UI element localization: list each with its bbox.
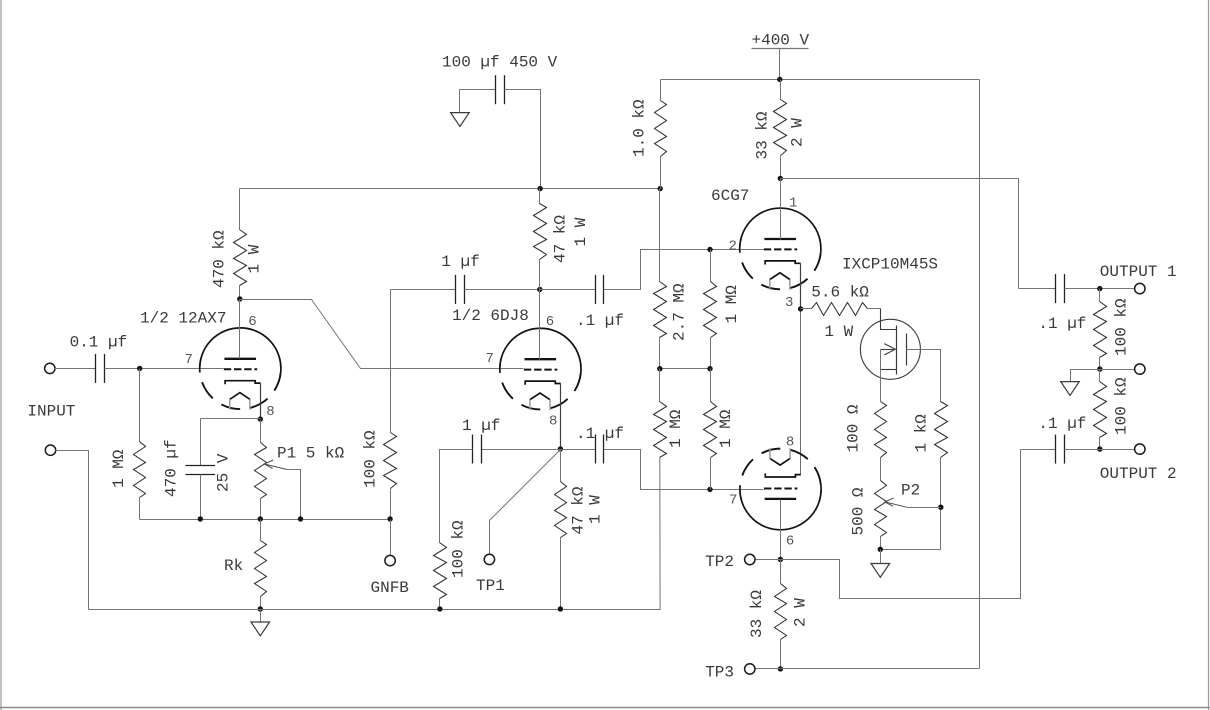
svg-text:6: 6 [248,314,256,330]
wire out2 cap to jack [1065,449,1135,451]
svg-text:OUTPUT 2: OUTPUT 2 [1100,465,1177,483]
wire 6DJ8 plate lead [539,290,541,360]
node 33k/plate junction [778,176,783,181]
wire pin8 node to 470uF [201,418,261,420]
resistor 47 kΩ 1 W (upper) [539,189,541,204]
wire TP1 diagonal [490,450,561,555]
resistor 47 kΩ 1 W (lower) [560,450,562,482]
capacitor 100 µf 450 V [495,75,497,104]
resistor 100 kΩ (GNFB) [390,290,392,433]
wire mid to jack [1100,369,1136,371]
svg-text:2 W: 2 W [788,118,806,147]
node TP2 junction [778,557,783,562]
transistor Q1 IXCP10M45S [860,319,920,379]
capacitor 1 µf (lower) [472,435,474,464]
wire 12AX7 cathode lead [260,384,262,420]
svg-text:7: 7 [185,352,193,368]
resistor 5.6 kΩ 1 W [801,308,812,310]
potentiometer P2 500 Ω [875,481,887,537]
wire cap to grid [105,368,224,370]
svg-text:470 µf: 470 µf [163,439,181,497]
node divider right [707,366,712,371]
svg-text:100 kΩ: 100 kΩ [1113,377,1131,435]
resistor 1 MΩ (lower left) [659,369,661,402]
ground (output divider) [1061,382,1080,396]
TP1 terminal [484,554,494,564]
potentiometer P1 5 kΩ [260,420,262,443]
GNFB terminal [390,520,392,557]
ground (Rk) [260,610,262,623]
wire mid to ground stub [1071,370,1100,382]
wire jack2 to bottom rail [56,451,89,610]
wire TP3 to right rail [781,668,980,670]
svg-text:.1 µf: .1 µf [576,312,624,330]
node out1 junction [1097,286,1102,291]
capacitor 1 µf (coupling) [455,275,457,304]
wire node to .1uF [540,289,596,291]
svg-text:25 V: 25 V [215,453,233,492]
wire input to cap [55,368,96,370]
node pin8/cathode junction [258,416,263,421]
OUTPUT 1 terminal [1135,283,1145,293]
wire mosfet right lead [907,350,941,402]
svg-text:1 MΩ: 1 MΩ [667,409,685,448]
node 100k/ground-rail [437,606,442,611]
tube U3b 6CG7 (lower) [740,485,821,530]
svg-text:6CG7: 6CG7 [711,187,749,205]
wire bottom ground rail [89,609,661,611]
svg-text:1/2 6DJ8: 1/2 6DJ8 [452,307,529,325]
resistor 470 kΩ 1 W [239,189,241,230]
capacitor 0.1 µf [95,354,97,383]
svg-text:2 W: 2 W [792,598,810,627]
wire .1uF to 6CG7 grid 7 [604,450,764,490]
svg-text:1.0 kΩ: 1.0 kΩ [631,99,649,157]
capacitor .1 µf (to 6CG7 grid 7) [595,435,597,464]
wire divider tie [660,368,711,370]
svg-text:.1 µf: .1 µf [1038,415,1086,433]
svg-text:6: 6 [786,534,794,550]
node 470uF bottom [198,516,203,521]
wire 1uF to 47k node [465,289,540,291]
svg-text:1 MΩ: 1 MΩ [110,449,128,488]
svg-text:470 kΩ: 470 kΩ [211,230,229,288]
svg-text:1 W: 1 W [246,244,264,273]
tube U1 1/2 12AX7 [200,328,281,373]
svg-text:47 kΩ: 47 kΩ [569,486,587,534]
svg-text:100 µf 450 V: 100 µf 450 V [442,54,558,72]
resistor 2.7 MΩ [659,189,661,282]
svg-text:100 Ω: 100 Ω [845,404,863,452]
svg-text:1 W: 1 W [586,495,604,524]
wire 1uF row left [391,289,456,291]
svg-text:3: 3 [785,295,793,311]
svg-text:TP2: TP2 [705,553,734,571]
node 12AX7 plate junction [237,296,242,301]
svg-text:OUTPUT 1: OUTPUT 1 [1100,263,1177,281]
svg-text:2: 2 [729,239,737,255]
svg-text:1 W: 1 W [572,217,590,246]
wire out1 cap to jack [1065,288,1135,290]
svg-text:1 MΩ: 1 MΩ [723,285,741,324]
wire 1uF lower left leg [440,450,473,543]
node 47k-lower/ground-rail [558,606,563,611]
node GNFB junction [387,516,392,521]
node rail/47k junction [538,186,543,191]
ground (100uF) [459,90,461,113]
resistor 1 MΩ (upper) [710,250,712,282]
svg-text:5.6 kΩ: 5.6 kΩ [811,284,869,302]
node TP3 junction [778,666,783,671]
capacitor .1 µf (output 1) [1055,274,1057,303]
svg-text:P2: P2 [901,481,920,499]
input jack 2 [45,445,55,455]
svg-text:1: 1 [789,196,797,212]
node cathode/5.6k junction [798,306,803,311]
node rail/1.0k junction [658,186,663,191]
svg-text:47 kΩ: 47 kΩ [551,215,569,263]
wire 12AX7 plate lead [239,300,241,359]
wire 6CG7 cathode column [800,264,802,309]
resistor 100 Ω [875,402,887,458]
wire 12AX7 plate to 6DJ8 grid (diagonal) [240,300,524,369]
resistor 100 kΩ (output 1) [1099,289,1101,302]
svg-text:.1 µf: .1 µf [576,425,624,443]
wire +400V rail [661,79,980,81]
svg-text:1 µf: 1 µf [462,417,500,435]
svg-text:TP3: TP3 [705,663,734,681]
svg-text:6: 6 [546,314,554,330]
node grid2/1M junction [707,247,712,252]
wire .1uF to 6CG7 grid 2 [604,250,764,290]
wire 6CG7 plate lead [780,179,782,240]
svg-text:2.7 MΩ: 2.7 MΩ [670,283,688,341]
ground (P2) [880,550,882,564]
node wiper/1k junction [938,505,943,510]
svg-text:1 kΩ: 1 kΩ [913,414,931,453]
svg-text:GNFB: GNFB [371,579,409,597]
node P1 bottom [258,516,263,521]
TP3 terminal [755,668,781,670]
wire right-side drop to TP3 [979,80,981,669]
wire 100uF left segment [460,89,496,91]
wire out2 row [1021,449,1056,451]
node wiper bottom [298,516,303,521]
resistor 1 kΩ [935,402,948,458]
resistor 1.0 kΩ [660,80,662,101]
svg-text:INPUT: INPUT [27,403,75,421]
svg-text:1/2 12AX7: 1/2 12AX7 [140,310,226,328]
wire out1 row [1019,288,1056,290]
node 47k/1uF junction [537,287,542,292]
resistor 1 MΩ (lower right) [710,369,712,402]
resistor 100 kΩ (output 2) [1099,370,1101,382]
capacitor .1 µf (output 2) [1055,435,1057,464]
resistor 1 MΩ (input) [139,369,141,442]
svg-text:Rk: Rk [224,557,243,575]
svg-text:8: 8 [266,404,274,420]
svg-text:100 kΩ: 100 kΩ [1113,298,1131,356]
svg-text:8: 8 [786,435,794,451]
node 6DJ8 cathode junction [558,446,563,451]
svg-text:8: 8 [549,414,557,430]
svg-text:1 W: 1 W [824,323,853,341]
svg-text:0.1 µf: 0.1 µf [70,334,128,352]
svg-text:33 kΩ: 33 kΩ [748,590,766,638]
resistor 33 kΩ 2 W (lower) [780,560,782,584]
wire cathode node to .1uF [561,449,596,451]
TP2 terminal [755,559,781,561]
node out2 junction [1097,446,1102,451]
tube U2 1/2 6DJ8 [500,328,581,373]
resistor Rk [260,520,262,541]
svg-text:IXCP10M45S: IXCP10M45S [842,255,938,273]
wire 33k node to output 1 branch [781,179,1019,289]
node grid/1M junction [137,366,142,371]
tube U3a 6CG7 (upper) [740,208,821,253]
node P2 bottom [878,547,883,552]
node divider left [657,366,662,371]
svg-text:.1 µf: .1 µf [1038,315,1086,333]
wire 6DJ8 cathode lead [560,384,562,450]
wire 1uF lower row [482,449,561,451]
svg-text:500 Ω: 500 Ω [850,487,868,535]
wire P2 bottom tie [881,549,941,551]
node Rk/ground-rail junction [258,606,263,611]
wire cathode node line [140,519,391,521]
svg-text:TP1: TP1 [476,577,505,595]
wire B+ rail (y=189) [240,188,661,190]
node +400/33k junction [777,77,782,82]
svg-text:100 kΩ: 100 kΩ [450,520,468,578]
node grid7/1M junction [707,487,712,492]
svg-text:7: 7 [729,493,737,509]
resistor 100 kΩ (TP1 leg) [434,543,447,599]
svg-text:7: 7 [486,351,494,367]
P1 wiper [287,470,301,520]
svg-text:100 kΩ: 100 kΩ [361,430,379,488]
OUTPUT 2 terminal [1135,444,1145,454]
wire mosfet source lead [880,350,882,402]
node out mid junction [1097,366,1102,371]
P2 wiper [907,507,941,509]
svg-text:+400 V: +400 V [752,32,810,50]
svg-text:1 µf: 1 µf [441,253,479,271]
capacitor 470 µf 25 V [200,419,202,466]
resistor 33 kΩ 2 W (upper) [780,80,782,100]
capacitor .1 µf (to 6CG7 grid 2) [595,275,597,304]
svg-text:P1 5 kΩ: P1 5 kΩ [277,444,345,462]
wire 6CG7 lower plate lead [780,500,782,560]
svg-text:1 MΩ: 1 MΩ [717,409,735,448]
svg-text:33 kΩ: 33 kΩ [753,111,771,159]
input jack 1 [45,363,55,373]
wire 100uF to rail [505,90,541,189]
wire TP2 to output 2 branch [781,450,1021,599]
output center terminal [1135,364,1145,374]
